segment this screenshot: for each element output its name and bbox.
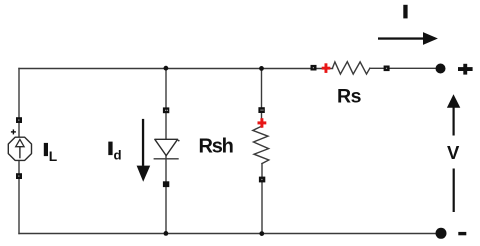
svg-text:Rs: Rs	[337, 86, 362, 108]
svg-text:Rsh: Rsh	[199, 136, 233, 158]
svg-text:L: L	[49, 149, 57, 164]
svg-text:V: V	[447, 142, 460, 163]
svg-text:d: d	[114, 147, 122, 162]
